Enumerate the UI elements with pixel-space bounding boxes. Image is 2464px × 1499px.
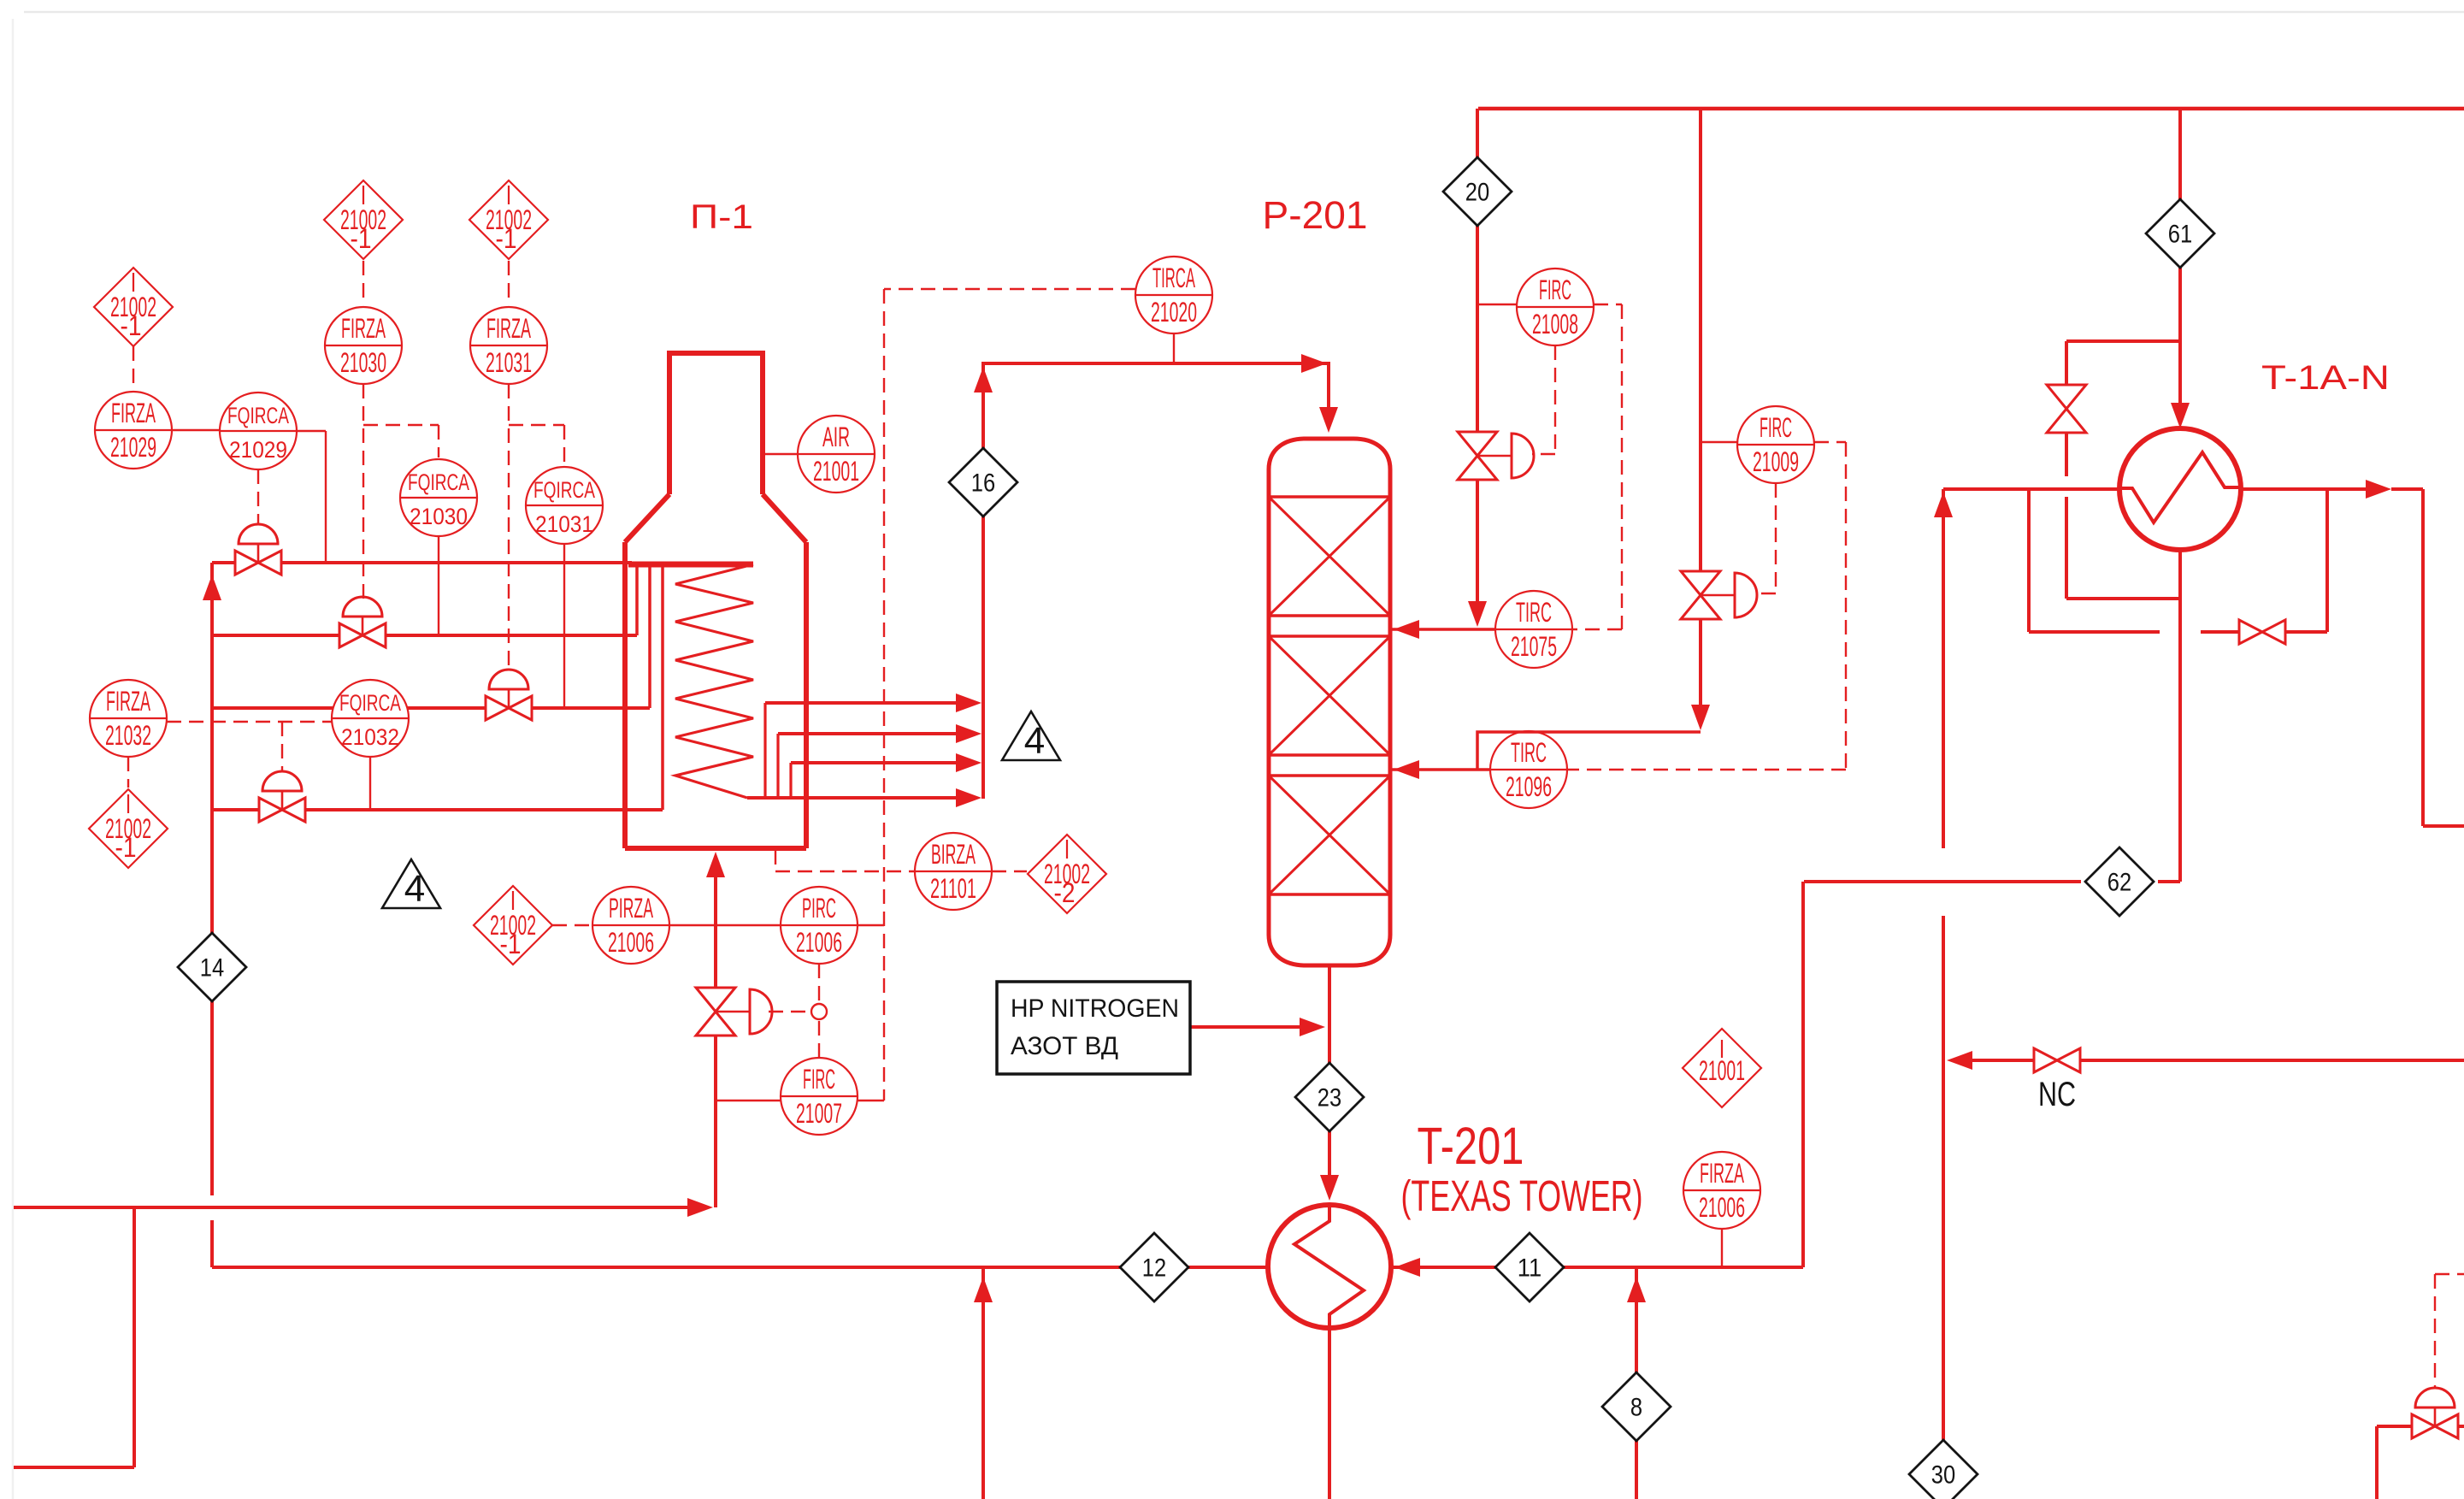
svg-text:FIRC: FIRC bbox=[1760, 412, 1792, 443]
svg-text:21032: 21032 bbox=[105, 720, 151, 751]
svg-text:П-1: П-1 bbox=[690, 198, 753, 236]
svg-text:20: 20 bbox=[1465, 179, 1489, 207]
svg-text:21007: 21007 bbox=[796, 1098, 842, 1129]
svg-text:T-1A-N: T-1A-N bbox=[2261, 359, 2390, 397]
svg-text:PIRZA: PIRZA bbox=[609, 893, 653, 924]
svg-text:21001: 21001 bbox=[1699, 1055, 1745, 1086]
svg-text:14: 14 bbox=[200, 954, 224, 983]
svg-text:21029: 21029 bbox=[110, 432, 156, 463]
svg-text:61: 61 bbox=[2168, 221, 2192, 249]
svg-text:21006: 21006 bbox=[1699, 1192, 1745, 1223]
svg-text:21009: 21009 bbox=[1753, 446, 1799, 477]
svg-text:23: 23 bbox=[1317, 1084, 1341, 1112]
svg-text:21001: 21001 bbox=[813, 456, 859, 487]
svg-text:FQIRCA: FQIRCA bbox=[339, 690, 401, 716]
svg-text:TIRCA: TIRCA bbox=[1152, 263, 1195, 293]
svg-text:FIRZA: FIRZA bbox=[111, 398, 156, 428]
svg-text:FIRC: FIRC bbox=[803, 1064, 835, 1095]
svg-text:4: 4 bbox=[1024, 720, 1045, 762]
svg-text:12: 12 bbox=[1142, 1254, 1166, 1283]
svg-text:-2: -2 bbox=[1054, 877, 1076, 908]
svg-text:8: 8 bbox=[1630, 1394, 1642, 1422]
svg-text:16: 16 bbox=[971, 469, 995, 498]
svg-text:21020: 21020 bbox=[1151, 297, 1197, 328]
svg-text:AIR: AIR bbox=[822, 422, 850, 452]
svg-text:P-201: P-201 bbox=[1263, 193, 1368, 237]
svg-text:21101: 21101 bbox=[930, 873, 976, 904]
svg-text:FIRZA: FIRZA bbox=[486, 313, 531, 344]
svg-text:21031: 21031 bbox=[486, 347, 532, 378]
svg-text:FIRZA: FIRZA bbox=[341, 313, 386, 344]
svg-text:FIRC: FIRC bbox=[1539, 274, 1571, 305]
svg-text:FIRZA: FIRZA bbox=[106, 686, 150, 717]
svg-text:-1: -1 bbox=[351, 223, 372, 254]
svg-text:21008: 21008 bbox=[1532, 309, 1578, 339]
svg-text:FQIRCA: FQIRCA bbox=[408, 469, 469, 495]
svg-text:-1: -1 bbox=[496, 223, 517, 254]
svg-text:NC: NC bbox=[2038, 1076, 2076, 1113]
svg-text:TIRC: TIRC bbox=[1511, 737, 1547, 768]
svg-text:-1: -1 bbox=[115, 832, 137, 863]
svg-text:-1: -1 bbox=[121, 310, 142, 341]
svg-text:HP NITROGEN: HP NITROGEN bbox=[1011, 994, 1179, 1023]
svg-text:-1: -1 bbox=[500, 929, 522, 959]
svg-text:21030: 21030 bbox=[410, 504, 468, 529]
svg-text:TIRC: TIRC bbox=[1516, 597, 1552, 628]
svg-text:АЗОТ ВД: АЗОТ ВД bbox=[1011, 1032, 1118, 1060]
svg-text:21030: 21030 bbox=[340, 347, 386, 378]
svg-text:21075: 21075 bbox=[1511, 631, 1557, 662]
svg-text:21006: 21006 bbox=[796, 927, 842, 958]
svg-text:FQIRCA: FQIRCA bbox=[533, 477, 595, 503]
svg-text:PIRC: PIRC bbox=[802, 893, 836, 924]
svg-text:11: 11 bbox=[1518, 1254, 1541, 1283]
svg-text:FQIRCA: FQIRCA bbox=[227, 403, 289, 428]
svg-text:21096: 21096 bbox=[1506, 771, 1552, 802]
svg-text:21029: 21029 bbox=[229, 437, 287, 463]
svg-text:21031: 21031 bbox=[535, 511, 593, 537]
svg-text:(TEXAS TOWER): (TEXAS TOWER) bbox=[1401, 1171, 1643, 1220]
svg-text:T-201: T-201 bbox=[1418, 1117, 1524, 1175]
svg-text:FIRZA: FIRZA bbox=[1700, 1158, 1744, 1189]
svg-text:30: 30 bbox=[1931, 1461, 1955, 1490]
svg-text:BIRZA: BIRZA bbox=[931, 839, 976, 870]
svg-text:4: 4 bbox=[404, 868, 425, 910]
svg-text:21032: 21032 bbox=[341, 724, 399, 750]
svg-text:62: 62 bbox=[2107, 869, 2131, 897]
svg-text:21006: 21006 bbox=[608, 927, 654, 958]
